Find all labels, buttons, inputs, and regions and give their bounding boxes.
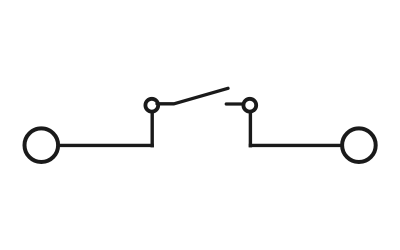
switch S1 blade xyxy=(157,88,228,104)
wire left vertical xyxy=(150,113,153,148)
wire right horizontal xyxy=(249,144,342,147)
terminal circle left (pin 1) xyxy=(25,128,59,162)
wire left horizontal xyxy=(59,144,154,147)
terminal circle right (pin 2) xyxy=(342,128,376,162)
switch S1 pivot contact (left small circle) xyxy=(145,99,158,112)
switch S1 fixed contact stub xyxy=(226,102,242,105)
wire right vertical xyxy=(249,113,252,148)
switch S1 fixed contact (right small circle) xyxy=(243,99,256,112)
